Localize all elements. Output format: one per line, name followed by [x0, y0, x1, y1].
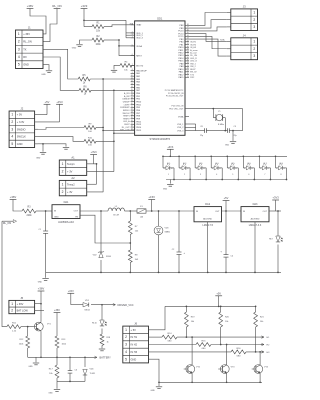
svg-text:SetA: SetA [220, 38, 225, 41]
svg-text:+5V: +5V [216, 292, 221, 296]
svg-text:+ 36V: + 36V [23, 32, 30, 36]
svg-text:VBAT: VBAT [136, 24, 142, 27]
svg-text:+36V: +36V [54, 309, 60, 312]
svg-text:VSSA: VSSA [178, 115, 184, 118]
svg-text:EN_5V: EN_5V [190, 72, 197, 74]
svg-text:8 MHz: 8 MHz [218, 124, 224, 126]
svg-text:4: 4 [18, 55, 20, 59]
svg-text:8: 8 [280, 174, 281, 176]
svg-text:RL_ON: RL_ON [23, 40, 32, 44]
svg-text:RL_ON: RL_ON [190, 55, 197, 57]
svg-text:1: 1 [132, 23, 133, 25]
svg-text:BUZZ: BUZZ [190, 69, 196, 71]
svg-text:1: 1 [253, 40, 255, 44]
svg-text:2: 2 [132, 32, 133, 34]
svg-text:1: 1 [11, 302, 13, 306]
svg-text:LED_A: LED_A [123, 120, 130, 123]
svg-text:+3V3: +3V3 [56, 100, 63, 104]
svg-text:RL_ON: RL_ON [52, 4, 61, 8]
svg-text:3: 3 [253, 25, 255, 29]
svg-text:LIGHT: LIGHT [124, 104, 131, 106]
svg-text:16: 16 [131, 92, 133, 94]
svg-text:VSS_2: VSS_2 [177, 127, 184, 129]
svg-text:6: 6 [132, 54, 133, 56]
svg-text:2: 2 [11, 308, 13, 312]
svg-text:47: 47 [187, 27, 189, 29]
svg-text:SWCLK: SWCLK [122, 113, 130, 115]
svg-text:PC13-TAMPER-RTC: PC13-TAMPER-RTC [165, 89, 184, 92]
svg-text:2: 2 [62, 190, 64, 194]
svg-text:TEMP1: TEMP1 [123, 116, 131, 118]
svg-text:40: 40 [187, 46, 189, 48]
svg-text:3: 3 [253, 54, 255, 58]
svg-text:22: 22 [131, 109, 133, 111]
svg-text:HL5: HL5 [231, 163, 234, 165]
svg-text:PB14: PB14 [136, 127, 142, 129]
svg-text:USBDP: USBDP [123, 101, 131, 103]
svg-text:A1: A1 [71, 156, 75, 160]
svg-text:30: 30 [187, 73, 189, 75]
svg-text:7: 7 [264, 174, 265, 176]
svg-text:PB12: PB12 [136, 121, 142, 123]
svg-text:VSS_1: VSS_1 [177, 124, 184, 126]
svg-text:+5V: +5V [45, 100, 50, 104]
svg-text:DA3: DA3 [253, 203, 258, 206]
svg-text:7: 7 [132, 64, 133, 66]
svg-text:28: 28 [131, 126, 133, 128]
svg-text:6: 6 [248, 174, 249, 176]
svg-text:Temp2: Temp2 [67, 182, 75, 186]
svg-text:34: 34 [187, 62, 189, 64]
svg-text:ADJ/GND: ADJ/GND [251, 218, 260, 221]
svg-text:TX: TX [23, 47, 27, 51]
svg-text:BATTERY: BATTERY [100, 356, 112, 359]
svg-text:HL1: HL1 [167, 163, 170, 165]
svg-text:SWCLK: SWCLK [17, 135, 26, 139]
svg-text:PA12: PA12 [179, 73, 185, 76]
svg-text:1: 1 [62, 162, 64, 166]
svg-text:IN H3: IN H3 [131, 350, 138, 354]
svg-text:A_cool: A_cool [190, 52, 197, 55]
svg-text:+ 3.3V: + 3.3V [17, 120, 25, 124]
svg-text:OUT: OUT [74, 211, 79, 213]
svg-text:4: 4 [125, 350, 127, 354]
svg-text:4: 4 [132, 36, 133, 38]
svg-text:32: 32 [187, 68, 189, 70]
svg-text:LED_R: LED_R [190, 58, 197, 60]
svg-text:PA10: PA10 [179, 68, 185, 71]
svg-text:18: 18 [131, 97, 133, 99]
svg-text:PA15: PA15 [179, 76, 185, 79]
svg-text:PB15: PB15 [178, 61, 184, 63]
svg-text:+36V: +36V [10, 195, 17, 199]
svg-text:4: 4 [11, 135, 13, 139]
svg-text:VSS_3: VSS_3 [177, 130, 184, 132]
svg-text:1k: 1k [107, 342, 109, 344]
svg-text:+15V: +15V [68, 290, 74, 293]
svg-text:BUZZ: BUZZ [124, 124, 130, 126]
svg-text:J1: J1 [28, 26, 31, 30]
svg-text:100k: 100k [96, 44, 102, 46]
svg-text:+36V: +36V [38, 287, 45, 291]
svg-text:11: 11 [131, 78, 133, 80]
svg-text:LM1117-5: LM1117-5 [202, 224, 213, 227]
svg-text:J5: J5 [20, 296, 23, 300]
svg-text:12: 12 [131, 80, 133, 82]
svg-text:2: 2 [125, 335, 127, 339]
svg-text:1: 1 [18, 32, 20, 36]
svg-text:+36V: +36V [27, 4, 34, 8]
svg-text:SW_2: SW_2 [190, 66, 196, 68]
svg-text:C9: C9 [234, 126, 236, 128]
svg-text:PB11: PB11 [136, 104, 142, 106]
svg-text:Temp1: Temp1 [67, 162, 75, 166]
svg-text:21: 21 [131, 106, 133, 108]
svg-text:15: 15 [131, 89, 133, 91]
svg-text:8: 8 [132, 69, 133, 71]
svg-text:LM1117-3.3: LM1117-3.3 [249, 224, 262, 227]
svg-text:+5V: +5V [224, 196, 229, 200]
svg-text:1: 1 [62, 182, 64, 186]
svg-text:13: 13 [131, 83, 133, 85]
svg-text:PB15: PB15 [136, 130, 142, 132]
svg-text:PC15: PC15 [178, 36, 184, 38]
svg-text:4: 4 [216, 174, 217, 176]
svg-text:38: 38 [187, 51, 189, 53]
svg-text:DA1: DA1 [64, 201, 69, 204]
svg-text:PB10: PB10 [136, 101, 142, 103]
svg-text:PB13: PB13 [178, 55, 184, 57]
svg-text:GND: GND [131, 357, 137, 361]
svg-text:HL4: HL4 [215, 163, 218, 165]
svg-text:3: 3 [125, 343, 127, 347]
svg-text:PB14: PB14 [178, 58, 184, 60]
svg-text:PD0 OSC_IN: PD0 OSC_IN [171, 106, 183, 108]
svg-text:23: 23 [131, 112, 133, 114]
svg-text:45: 45 [187, 32, 189, 34]
svg-text:9: 9 [132, 72, 133, 74]
svg-text:10: 10 [131, 75, 133, 77]
svg-text:5: 5 [132, 45, 133, 47]
svg-text:43: 43 [187, 38, 189, 40]
svg-text:C8: C8 [200, 126, 202, 128]
svg-text:HL6: HL6 [247, 163, 250, 165]
svg-text:PC15-OSC32_OUT: PC15-OSC32_OUT [166, 96, 184, 98]
svg-text:+ 36V: + 36V [17, 302, 24, 306]
svg-text:19: 19 [131, 100, 133, 102]
svg-text:2: 2 [18, 40, 20, 44]
svg-text:BOOT0: BOOT0 [136, 65, 144, 67]
svg-text:SW_1: SW_1 [190, 63, 196, 65]
svg-text:36: 36 [187, 57, 189, 59]
svg-text:35: 35 [187, 59, 189, 61]
svg-text:5: 5 [18, 63, 20, 67]
svg-text:+ 5V: + 5V [131, 328, 137, 332]
svg-text:26: 26 [131, 120, 133, 122]
svg-text:5: 5 [232, 174, 233, 176]
svg-text:48: 48 [187, 24, 189, 26]
svg-text:IN_H1: IN_H1 [190, 42, 197, 44]
svg-text:VDD_3: VDD_3 [136, 38, 143, 40]
svg-text:DA2: DA2 [205, 203, 210, 206]
svg-text:PA0-WKUP: PA0-WKUP [136, 69, 147, 72]
svg-text:IN H2: IN H2 [131, 343, 138, 347]
svg-text:A2: A2 [71, 176, 75, 180]
svg-text:5: 5 [11, 142, 13, 146]
svg-text:GND: GND [41, 74, 46, 76]
svg-text:HL3: HL3 [199, 163, 202, 165]
svg-text:+3V3: +3V3 [273, 196, 280, 200]
svg-text:IN_H2: IN_H2 [190, 44, 197, 46]
svg-text:25: 25 [131, 117, 133, 119]
svg-text:IN_H3: IN_H3 [190, 47, 197, 49]
svg-text:BAT LOW: BAT LOW [17, 308, 29, 312]
svg-text:HL2: HL2 [183, 163, 186, 165]
svg-text:24: 24 [131, 114, 133, 116]
svg-text:SWDIO: SWDIO [123, 110, 130, 112]
svg-text:PC13: PC13 [178, 31, 184, 33]
svg-text:20: 20 [131, 103, 133, 105]
svg-text:NRST: NRST [136, 55, 142, 57]
svg-text:+ 3V: + 3V [67, 190, 73, 194]
svg-text:46: 46 [187, 29, 189, 31]
svg-text:GND: GND [225, 144, 230, 146]
svg-text:RX: RX [23, 55, 27, 59]
svg-text:GND: GND [163, 189, 168, 191]
svg-text:TEMP2: TEMP2 [123, 118, 131, 120]
svg-text:DRIVER_VCC: DRIVER_VCC [118, 304, 134, 307]
svg-text:GND: GND [23, 63, 29, 67]
svg-text:SMBJ: SMBJ [165, 232, 170, 234]
svg-text:3: 3 [18, 47, 20, 51]
svg-text:17: 17 [131, 95, 133, 97]
svg-text:1: 1 [125, 328, 127, 332]
svg-text:GND: GND [54, 216, 59, 218]
svg-text:2: 2 [184, 174, 185, 176]
svg-text:J6: J6 [134, 322, 137, 326]
svg-text:VDDA: VDDA [136, 45, 142, 48]
svg-text:29: 29 [187, 76, 189, 78]
svg-text:OUT: OUT [263, 211, 268, 213]
svg-text:14: 14 [131, 86, 133, 88]
svg-text:37: 37 [187, 54, 189, 56]
svg-text:STM32F103C8T6: STM32F103C8T6 [149, 137, 170, 141]
svg-text:44: 44 [187, 35, 189, 37]
svg-text:RL_OUT: RL_OUT [122, 127, 131, 129]
svg-text:A_IN1: A_IN1 [124, 92, 130, 95]
svg-text:+3V3: +3V3 [167, 146, 174, 149]
svg-text:22p: 22p [200, 135, 203, 137]
svg-text:PC14-OSC32_IN: PC14-OSC32_IN [168, 93, 184, 95]
svg-text:PB12: PB12 [178, 53, 184, 55]
svg-text:2: 2 [253, 18, 255, 22]
svg-text:27: 27 [131, 123, 133, 125]
svg-text:1: 1 [168, 174, 169, 176]
svg-text:A_warm: A_warm [190, 49, 198, 52]
svg-text:CURRENT: CURRENT [120, 107, 131, 109]
svg-text:OUT: OUT [215, 211, 220, 213]
svg-text:GND: GND [28, 366, 33, 368]
svg-text:39: 39 [187, 49, 189, 51]
svg-text:2: 2 [62, 170, 64, 174]
svg-text:A_IN2: A_IN2 [124, 95, 130, 98]
svg-text:41: 41 [187, 43, 189, 45]
svg-text:33: 33 [187, 65, 189, 67]
svg-text:GND: GND [48, 393, 53, 395]
svg-text:PC14: PC14 [178, 33, 184, 35]
svg-text:GND: GND [17, 142, 23, 146]
svg-text:5: 5 [125, 357, 127, 361]
svg-text:PB10: PB10 [178, 47, 184, 49]
svg-text:RL_ON: RL_ON [3, 222, 12, 225]
svg-text:2: 2 [11, 120, 13, 124]
svg-text:GND: GND [150, 390, 155, 392]
svg-text:ADJ/GND: ADJ/GND [203, 218, 212, 221]
svg-text:LED_G: LED_G [190, 61, 197, 63]
svg-text:22p: 22p [234, 135, 237, 137]
svg-text:TL431: TL431 [90, 373, 97, 375]
svg-text:+3V3: +3V3 [91, 151, 98, 154]
svg-text:GND: GND [38, 282, 43, 284]
svg-text:42: 42 [187, 40, 189, 42]
svg-text:+3V3: +3V3 [81, 4, 88, 8]
svg-text:HL8: HL8 [279, 163, 282, 165]
svg-text:3: 3 [132, 34, 133, 36]
svg-text:PD1 OSC_OUT: PD1 OSC_OUT [169, 109, 184, 111]
svg-text:3: 3 [200, 174, 201, 176]
svg-text:3: 3 [11, 127, 13, 131]
svg-text:+ 3V: + 3V [67, 170, 73, 174]
svg-text:J3: J3 [243, 5, 246, 9]
svg-text:1: 1 [253, 11, 255, 15]
svg-text:SWDIO: SWDIO [17, 127, 26, 131]
svg-text:IN H1: IN H1 [131, 335, 138, 339]
svg-text:GND: GND [36, 157, 41, 159]
svg-text:+15V: +15V [148, 195, 155, 199]
svg-text:SS34: SS34 [84, 309, 90, 311]
svg-text:DD1: DD1 [157, 16, 163, 20]
svg-text:1: 1 [11, 113, 13, 117]
svg-text:31: 31 [187, 70, 189, 72]
svg-text:2: 2 [253, 47, 255, 51]
svg-text:J4: J4 [243, 33, 246, 37]
svg-text:220k: 220k [27, 215, 33, 217]
svg-text:33 uH: 33 uH [113, 215, 119, 217]
svg-text:PB13: PB13 [136, 124, 142, 126]
svg-text:J2: J2 [20, 107, 23, 111]
svg-text:HL7: HL7 [263, 163, 266, 165]
svg-text:+ 5V: + 5V [17, 113, 23, 117]
svg-text:USBDM: USBDM [122, 99, 130, 101]
svg-text:PB11: PB11 [179, 50, 185, 52]
svg-text:GND: GND [72, 48, 77, 50]
svg-text:LM2596S-ADJ: LM2596S-ADJ [58, 221, 74, 224]
